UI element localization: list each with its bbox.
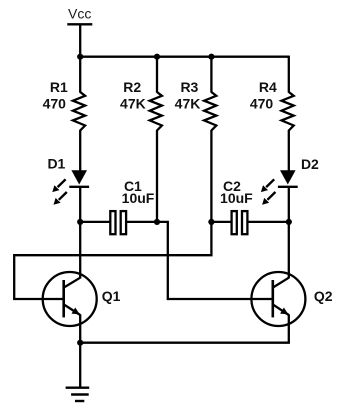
LED D1	[52, 170, 89, 205]
svg-text:10uF: 10uF	[220, 190, 253, 206]
junction dot node B (R2/C1/Q2 base)	[154, 219, 160, 225]
wire node C to Q1 base	[14, 222, 211, 299]
junction dot node E (emitter rail/ground)	[77, 340, 83, 346]
wire rail to R2	[156, 57, 158, 93]
capacitor C2	[232, 211, 248, 234]
transistor Q1	[43, 272, 97, 326]
resistor R4	[282, 92, 294, 131]
wire D1 to node A	[79, 187, 81, 222]
wire top supply rail	[80, 56, 289, 58]
wire rail corner to R4	[288, 56, 290, 93]
junction dot node D (D2/C2/Q2 collector)	[286, 219, 292, 225]
wire node B to Q2 base	[157, 222, 252, 299]
resistor R2	[150, 92, 162, 131]
LED D2	[261, 170, 298, 205]
resistor R3	[204, 92, 216, 131]
wire rail to R3	[210, 57, 212, 93]
svg-text:470: 470	[250, 95, 274, 111]
svg-text:R1: R1	[50, 79, 68, 95]
svg-text:47K: 47K	[120, 95, 146, 111]
resistor R1	[73, 92, 85, 131]
wire D2 to node D	[288, 187, 290, 222]
wire R3 to node C	[210, 130, 212, 222]
wire node E to ground	[79, 343, 81, 388]
svg-text:10uF: 10uF	[122, 190, 155, 206]
wire node C to C2	[211, 221, 232, 223]
junction dot rail/R3	[208, 54, 214, 60]
wire C1 to node B	[127, 221, 158, 223]
wire Vcc stub	[79, 24, 81, 56]
wire R4 to D2	[288, 130, 290, 171]
wire R1 to D1	[79, 130, 81, 171]
junction dot rail/R2	[154, 54, 160, 60]
wire node D to Q2 collector	[288, 222, 290, 279]
wire C2 to node D	[248, 221, 289, 223]
svg-text:D2: D2	[301, 156, 319, 172]
wire node A to C1	[80, 221, 111, 223]
ground	[66, 388, 90, 401]
Vcc power symbol	[67, 6, 92, 25]
wire Q2 emitter rail to node E	[80, 314, 289, 342]
wire rail to R1	[79, 57, 81, 93]
svg-text:R4: R4	[259, 79, 277, 95]
junction dot node C (R3/C2/Q1 base)	[208, 219, 214, 225]
junction dot rail/R1	[77, 54, 83, 60]
svg-text:R2: R2	[123, 79, 141, 95]
wire node A to Q1 collector	[79, 222, 81, 279]
svg-text:Vcc: Vcc	[68, 6, 91, 22]
svg-text:470: 470	[43, 95, 67, 111]
transistor Q2	[251, 272, 305, 326]
wire Q1 emitter to node E	[79, 314, 81, 342]
junction dot node A (D1/C1/Q1 collector)	[77, 219, 83, 225]
capacitor C1	[110, 211, 126, 234]
wire R2 to node B	[156, 130, 158, 222]
svg-text:Q2: Q2	[314, 288, 333, 304]
svg-text:Q1: Q1	[102, 288, 121, 304]
svg-text:47K: 47K	[175, 95, 201, 111]
svg-text:D1: D1	[47, 155, 65, 171]
svg-text:R3: R3	[180, 79, 198, 95]
